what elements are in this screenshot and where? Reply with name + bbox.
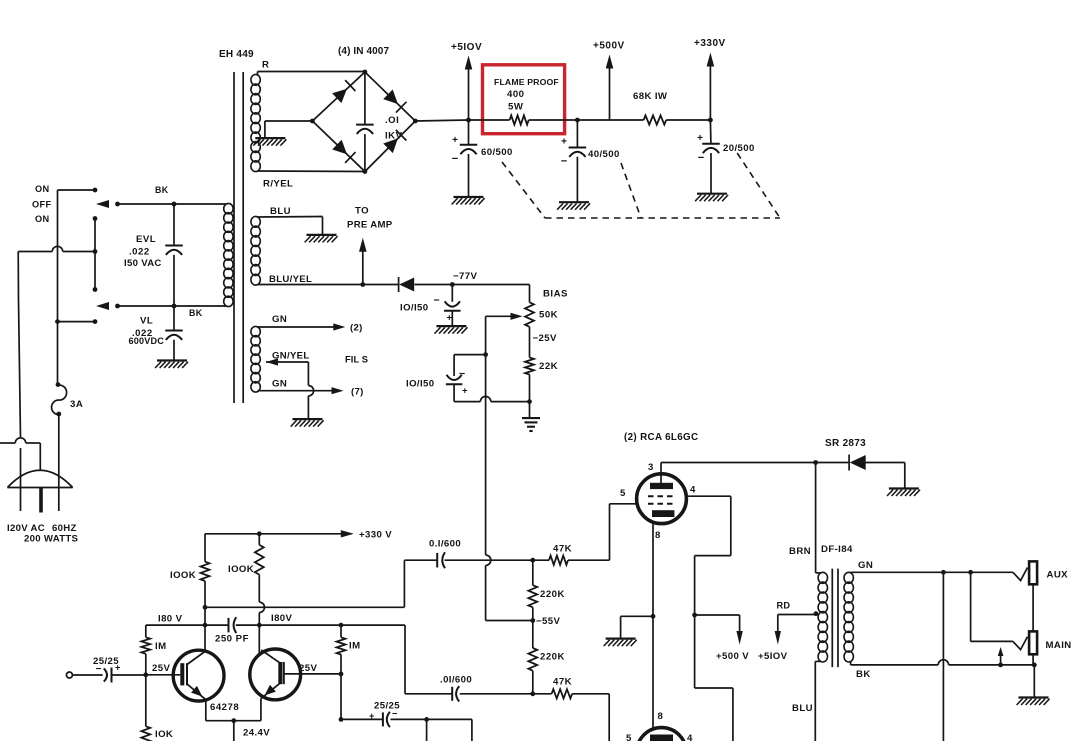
tube V2 cathode — [650, 735, 673, 742]
svg-text:−: − — [459, 368, 465, 380]
svg-text:RD: RD — [777, 601, 791, 611]
svg-text:FLAME PROOF: FLAME PROOF — [494, 77, 559, 87]
svg-text:220K: 220K — [540, 589, 565, 600]
svg-text:GN: GN — [272, 314, 287, 325]
svg-text:+: + — [462, 386, 468, 397]
capacitor VL .022 600VDC — [173, 306, 175, 331]
svg-text:250 PF: 250 PF — [215, 634, 249, 645]
svg-text:50K: 50K — [539, 310, 558, 321]
svg-text:BLU: BLU — [792, 703, 813, 714]
svg-text:DF-I84: DF-I84 — [821, 544, 853, 555]
svg-text:−: − — [561, 156, 567, 168]
transistor Q1 64278 — [173, 650, 224, 701]
wire BLU/YEL — [258, 284, 399, 286]
switch S1 top contact wire — [58, 189, 96, 191]
svg-text:22K: 22K — [539, 361, 558, 372]
svg-text:8: 8 — [655, 530, 661, 541]
ground at jacks — [1019, 696, 1049, 698]
svg-text:47K: 47K — [553, 677, 572, 688]
svg-text:+: + — [561, 137, 567, 148]
wire 4 ohm tap down — [942, 572, 944, 741]
svg-text:ON: ON — [35, 214, 50, 224]
node -55V — [530, 618, 535, 623]
diode D3 bottom-left — [332, 140, 347, 155]
wire GN to (7) — [258, 390, 338, 392]
svg-text:−: − — [392, 709, 397, 719]
tube V1 grid dashes — [648, 495, 676, 497]
svg-text:+: + — [452, 135, 458, 146]
wire R to bridge top — [257, 72, 259, 76]
transformer T2 secondary winding — [844, 572, 853, 583]
wire primary bottom BK — [118, 305, 227, 307]
svg-text:EVL: EVL — [136, 234, 156, 245]
svg-text:IOOK: IOOK — [170, 570, 196, 581]
svg-text:BK: BK — [189, 308, 203, 318]
switch S1 lower contact wire — [58, 321, 96, 323]
node plate junction — [813, 460, 818, 465]
ground below GN/YEL — [293, 418, 323, 420]
ground below 10/150 upper — [436, 325, 466, 327]
svg-text:I20V AC: I20V AC — [7, 523, 45, 534]
capacitor 60/500 — [468, 120, 470, 145]
svg-text:68K IW: 68K IW — [633, 91, 668, 102]
svg-text:60/500: 60/500 — [481, 147, 513, 158]
switch S1 pole wire — [57, 190, 59, 385]
tube V1 plate — [650, 483, 673, 489]
wire cathode to ground — [621, 615, 653, 617]
svg-text:3: 3 — [648, 462, 653, 473]
wire AUX to MAIN — [1032, 584, 1034, 631]
node Q1 base — [143, 672, 148, 677]
jack MAIN contact — [1013, 637, 1028, 650]
svg-text:I80V: I80V — [271, 613, 293, 624]
arrow TO PRE AMP — [360, 282, 365, 287]
ground below VL — [157, 359, 187, 361]
svg-text:GN: GN — [858, 560, 873, 571]
transformer T1 secondary R winding — [251, 74, 260, 85]
svg-text:64278: 64278 — [210, 702, 239, 713]
svg-text:−: − — [96, 664, 102, 675]
svg-text:EH 449: EH 449 — [219, 49, 254, 60]
jack AUX contact — [1013, 568, 1028, 581]
tube V1 cathode — [652, 510, 674, 517]
svg-text:8: 8 — [658, 711, 664, 722]
svg-text:I50 VAC: I50 VAC — [124, 258, 162, 269]
wire GN/YEL tap — [266, 358, 278, 365]
svg-text:600VDC: 600VDC — [129, 336, 165, 346]
svg-text:−: − — [452, 153, 458, 165]
svg-text:BLU/YEL: BLU/YEL — [269, 274, 312, 285]
svg-text:BRN: BRN — [789, 546, 811, 557]
svg-text:4: 4 — [690, 485, 696, 496]
svg-text:.022: .022 — [129, 247, 150, 258]
ground below 60/500 — [454, 196, 484, 198]
svg-text:40/500: 40/500 — [588, 149, 620, 160]
svg-text:PRE AMP: PRE AMP — [347, 220, 393, 231]
switch S1 contact bar — [94, 219, 96, 290]
jack MAIN sleeve — [1029, 631, 1037, 654]
wire secondary top GN — [850, 571, 852, 574]
svg-text:IOOK: IOOK — [228, 564, 254, 575]
svg-text:R/YEL: R/YEL — [263, 179, 293, 190]
wire to lower stage — [426, 719, 428, 741]
svg-text:IO/I50: IO/I50 — [400, 303, 429, 314]
tube V1 6L6GC envelope — [637, 474, 687, 524]
capacitor EVL .022 150VAC — [172, 202, 177, 207]
wire left leg down — [17, 252, 19, 301]
svg-text:IOK: IOK — [155, 729, 173, 740]
diode D1 top-left — [332, 89, 347, 103]
svg-text:IKV: IKV — [385, 131, 403, 142]
wire V1 cathode pin 8 — [652, 522, 654, 727]
svg-text:−55V: −55V — [536, 616, 560, 627]
wire OPT primary bottom BLU — [814, 661, 816, 741]
svg-text:OFF: OFF — [32, 200, 52, 210]
ground at bridge — [255, 137, 285, 139]
svg-text:BIAS: BIAS — [543, 289, 568, 300]
svg-text:.0I/600: .0I/600 — [440, 675, 472, 686]
capacitor 20/500 — [709, 120, 712, 144]
fuse F1 3A — [56, 382, 61, 387]
ground at BLU — [307, 234, 337, 236]
diode D5 bias rectifier — [398, 277, 400, 292]
jack AUX sleeve — [1029, 561, 1037, 584]
wire bridge left to ground — [265, 120, 313, 122]
svg-text:5: 5 — [620, 488, 626, 499]
svg-text:−: − — [698, 152, 704, 164]
wire plate to OPT primary — [815, 463, 817, 573]
capacitor 10/150 lower — [453, 355, 455, 376]
svg-text:I80 V: I80 V — [158, 614, 183, 625]
plug P1 prongs — [20, 470, 22, 511]
svg-text:IM: IM — [155, 641, 166, 652]
svg-text:−25V: −25V — [533, 333, 557, 344]
transformer T2 core — [831, 569, 833, 668]
svg-text:+5IOV: +5IOV — [758, 651, 788, 662]
diode D6 SR2873 — [816, 462, 850, 464]
svg-text:(7): (7) — [351, 387, 364, 398]
svg-text:5W: 5W — [508, 102, 524, 113]
wire emitters join — [205, 700, 207, 721]
ground below 20/500 — [697, 193, 727, 195]
svg-text:AUX: AUX — [1047, 570, 1069, 581]
svg-text:.OI: .OI — [385, 115, 399, 126]
wire BLU to ground — [258, 216, 323, 219]
wire V1 grid pin 5 — [610, 503, 638, 505]
svg-text:(2) RCA 6L6GC: (2) RCA 6L6GC — [624, 432, 698, 443]
ground at cathode line — [606, 637, 636, 639]
capacitor 40/500 — [575, 118, 580, 123]
diode D4 bottom-right — [383, 138, 398, 153]
svg-text:25V: 25V — [152, 663, 170, 674]
wire bias wiper down — [485, 316, 487, 354]
MAIN switch arrow — [998, 663, 1003, 668]
svg-text:3A: 3A — [70, 399, 83, 410]
svg-text:+330 V: +330 V — [359, 530, 392, 541]
svg-text:+: + — [115, 663, 120, 673]
transistor Q2 64278 — [250, 649, 301, 700]
wire GN to (2) — [258, 326, 339, 328]
svg-text:MAIN: MAIN — [1046, 640, 1072, 651]
svg-text:+: + — [697, 133, 703, 144]
wire MAIN sleeve to ground — [1032, 654, 1034, 665]
pot wiper arrow — [486, 315, 517, 317]
wire -77V to bias pot — [452, 284, 529, 286]
svg-text:(2): (2) — [350, 323, 363, 334]
svg-text:20/500: 20/500 — [723, 143, 755, 154]
input terminal — [66, 672, 72, 678]
wire 100K right to collector with hop — [258, 575, 260, 603]
svg-text:FIL S: FIL S — [345, 354, 368, 364]
svg-text:5: 5 — [626, 733, 632, 741]
wire primary top BK — [118, 203, 227, 205]
chassis ground below 22K — [522, 417, 540, 419]
svg-text:220K: 220K — [540, 652, 565, 663]
svg-text:60HZ: 60HZ — [52, 523, 77, 534]
wire coupling to grid upper — [205, 606, 404, 608]
wire V1 screen pin 4 — [686, 495, 731, 497]
diode D2 top-right — [383, 90, 398, 105]
wire 180V right — [259, 624, 405, 626]
svg-text:IM: IM — [349, 641, 360, 652]
svg-text:0.I/600: 0.I/600 — [429, 539, 461, 550]
wire 180V left — [146, 624, 229, 626]
svg-text:24.4V: 24.4V — [243, 728, 270, 739]
svg-text:4: 4 — [687, 733, 693, 741]
capacitor .01 1KV — [364, 72, 366, 125]
svg-text:BK: BK — [155, 185, 169, 195]
ground at SR2873 — [889, 487, 919, 489]
svg-text:R: R — [262, 60, 269, 71]
svg-text:−77V: −77V — [453, 271, 477, 282]
wire V1 plate pin 3 — [660, 463, 662, 484]
wire secondary bottom BK with hop — [850, 661, 852, 665]
wire R/YEL to bridge bottom — [258, 170, 365, 173]
svg-text:ON: ON — [35, 184, 50, 194]
svg-text:VL: VL — [140, 316, 153, 327]
transformer T1 primary winding — [224, 203, 233, 213]
svg-text:200 WATTS: 200 WATTS — [24, 534, 79, 545]
svg-text:+500V: +500V — [593, 41, 625, 52]
node -77V — [450, 282, 455, 287]
svg-text:+5IOV: +5IOV — [451, 42, 482, 53]
ground below 40/500 — [559, 201, 589, 203]
transformer T1 secondary GN winding — [251, 326, 260, 336]
wire bridge right to +510 rail — [415, 120, 468, 121]
svg-text:−: − — [434, 295, 440, 307]
wire 22K to chassis ground — [529, 375, 531, 419]
svg-text:(4) IN 4007: (4) IN 4007 — [338, 46, 389, 57]
svg-text:SR 2873: SR 2873 — [825, 438, 866, 449]
node +500V arrow down — [692, 613, 697, 618]
node +330V rail — [205, 533, 347, 535]
svg-text:+330V: +330V — [694, 38, 726, 49]
red highlight box — [483, 65, 565, 134]
wire V2 grid from 47K — [608, 694, 610, 741]
arrow to switch bottom — [96, 302, 109, 310]
svg-text:GN: GN — [272, 379, 287, 390]
tube V2 6L6GC envelope (partial) — [637, 728, 687, 746]
svg-text:+: + — [447, 313, 453, 324]
transformer T1 secondary BLU winding — [251, 216, 260, 227]
svg-text:IO/I50: IO/I50 — [406, 379, 435, 390]
wire AC input with hop — [0, 442, 15, 444]
transformer T1 core — [233, 72, 235, 403]
svg-text:TO: TO — [355, 206, 369, 217]
transformer T2 primary winding — [818, 572, 827, 583]
svg-text:25V: 25V — [299, 663, 317, 674]
svg-text:47K: 47K — [553, 544, 572, 555]
svg-text:400: 400 — [507, 89, 525, 100]
dashed can outline — [502, 162, 545, 218]
plug P1 dome — [7, 470, 72, 487]
wire switch mid with hop — [18, 251, 52, 253]
wire pin4 to lower tube — [695, 687, 733, 689]
svg-text:BK: BK — [856, 669, 871, 680]
svg-text:BLU: BLU — [270, 206, 291, 217]
resistor 22K — [529, 327, 531, 358]
wire to MAIN contact — [970, 572, 972, 641]
svg-text:+500 V: +500 V — [716, 651, 749, 662]
bridge diamond — [312, 72, 415, 172]
arrow to switch top — [96, 200, 109, 208]
capacitor 10/150 upper — [451, 285, 453, 302]
